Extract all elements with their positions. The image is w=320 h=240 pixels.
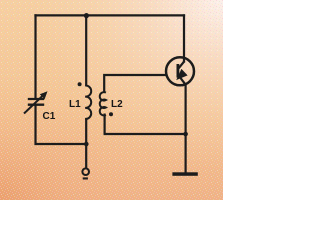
svg-text:C1: C1	[43, 111, 56, 122]
wire base: transistor base to L2 top	[104, 75, 166, 92]
phase dot L2	[109, 112, 113, 116]
wire emitter lead from top rail	[183, 15, 185, 61]
ground	[172, 172, 197, 176]
wire top rail	[36, 14, 185, 16]
capacitor C1 (variable)	[24, 94, 45, 114]
wire collector lead down to ground	[185, 85, 187, 172]
junction node: collector / L2	[183, 132, 188, 137]
transistor Q1 (PNP)	[166, 57, 194, 85]
junction node: top rail / L1	[84, 13, 89, 18]
junction node: bottom-left / L1	[84, 142, 89, 147]
terminal (output, negative)	[82, 168, 89, 175]
wire left vertical lower + bottom-left horizontal	[36, 106, 87, 144]
svg-text:L2: L2	[111, 99, 123, 110]
phase dot L1	[78, 82, 82, 86]
inductor L1	[85, 85, 91, 119]
wire L1 top branch	[85, 15, 87, 85]
wire left vertical upper (top rail to C1 top plate)	[34, 15, 36, 97]
wire L1 bottom to terminal	[85, 119, 87, 167]
svg-text:L1: L1	[69, 99, 81, 110]
minus mark	[83, 177, 88, 179]
wire L2 bottom to collector junction	[105, 115, 186, 134]
inductor L2	[100, 92, 106, 115]
